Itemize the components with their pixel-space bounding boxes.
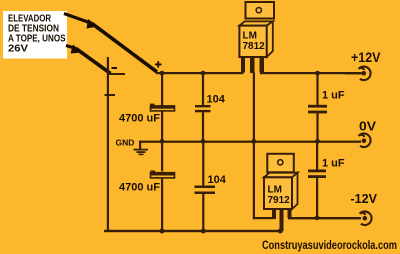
node dot top rail at C2 branch xyxy=(201,71,206,76)
annotation arrow to + input xyxy=(64,14,157,73)
wire: top input rail xyxy=(156,72,244,74)
svg-text:GND: GND xyxy=(116,138,135,148)
capacitor C6 1uF plates xyxy=(308,170,326,179)
svg-text:26V: 26V xyxy=(8,43,28,55)
wire: U1 gnd to U2 gnd pin horizontal xyxy=(253,217,274,219)
GND hook down xyxy=(139,141,141,149)
capacitor C6 lower wire xyxy=(316,178,318,219)
terminal 0V xyxy=(359,133,371,147)
minus label at - input xyxy=(112,67,118,69)
capacitor C2 104 upper wire xyxy=(202,73,204,106)
regulator U2 LM7912 body xyxy=(264,173,298,209)
regulator U1 LM7812 body xyxy=(239,21,272,57)
U2 input pin xyxy=(280,209,284,231)
wire: -12V output line xyxy=(288,217,361,219)
svg-text:7912: 7912 xyxy=(268,195,291,206)
capacitor C4 lower wire xyxy=(161,178,163,231)
capacitor C5 lower wire xyxy=(202,194,204,231)
capacitor C2 lower wire xyxy=(202,112,204,141)
wire: U1 gnd line down xyxy=(253,73,255,220)
node dot gnd rail at C3/C6 branch xyxy=(315,139,320,144)
node dot output rail at C3 branch xyxy=(315,71,320,76)
capacitor C5 104 plates xyxy=(195,186,216,195)
capacitor C1 4700uF upper wire xyxy=(161,73,163,107)
regulator U1 LM7812 tab xyxy=(246,2,275,19)
svg-text:104: 104 xyxy=(208,174,227,186)
node dot -12V line at C6 branch xyxy=(315,215,320,220)
node dot gnd rail at C2/C5 branch xyxy=(201,139,206,144)
ground symbol xyxy=(134,149,149,156)
wire: - input stub xyxy=(107,73,125,75)
regulator U2 LM7912 tab xyxy=(267,154,294,173)
capacitor C3 lower wire xyxy=(316,113,318,140)
wire: GND rail xyxy=(139,141,361,143)
svg-text:LM: LM xyxy=(243,31,257,42)
terminal -12V xyxy=(360,211,372,225)
capacitor C5 104 upper wire xyxy=(202,141,204,186)
node dot top rail at C1 branch xyxy=(160,71,165,76)
capacitor C1 4700uF plates xyxy=(150,104,175,111)
U2 gnd pin xyxy=(272,209,276,219)
capacitor C3 1uF plates xyxy=(308,105,327,114)
node dot gnd rail at 7812 gnd line xyxy=(251,139,256,144)
U1 output pin xyxy=(260,57,265,73)
U1 gnd pin xyxy=(250,57,255,73)
plus label at + input xyxy=(155,61,162,67)
capacitor C1 lower wire xyxy=(161,111,163,141)
capacitor C3 1uF upper wire xyxy=(316,73,318,106)
svg-text:4700 uF: 4700 uF xyxy=(119,113,160,125)
svg-text:-12V: -12V xyxy=(351,191,378,206)
tick crossbar on left wire xyxy=(105,94,116,96)
capacitor C4 4700uF plates xyxy=(151,171,175,178)
U2 output pin xyxy=(288,209,292,218)
capacitor C2 104 plates xyxy=(195,105,211,112)
svg-text:1 uF: 1 uF xyxy=(322,158,345,170)
wire: left vertical (negative input) xyxy=(107,57,109,231)
svg-text:LM: LM xyxy=(268,185,282,196)
wire: bottom negative rail xyxy=(104,230,282,232)
svg-text:0V: 0V xyxy=(359,119,376,134)
svg-text:Construyasuvideorockola.com: Construyasuvideorockola.com xyxy=(262,238,397,252)
svg-text:7812: 7812 xyxy=(243,41,266,52)
node dot bottom rail at C4 branch xyxy=(160,229,165,234)
svg-text:104: 104 xyxy=(207,94,226,106)
U1 input pin xyxy=(241,57,245,73)
wire: top output rail xyxy=(260,72,361,74)
terminal +12V xyxy=(345,67,371,81)
capacitor C6 1uF upper wire xyxy=(316,141,318,170)
svg-text:4700 uF: 4700 uF xyxy=(119,182,160,194)
node dot bottom rail end at 7912 input pin xyxy=(278,229,283,234)
svg-text:+12V: +12V xyxy=(351,50,381,65)
annotation arrow to - input xyxy=(66,45,111,74)
svg-text:1 uF: 1 uF xyxy=(322,90,345,102)
capacitor C4 4700uF upper wire xyxy=(161,141,163,171)
node dot bottom rail at C5 branch xyxy=(201,229,206,234)
node dot gnd rail at C1/C4 branch xyxy=(160,139,165,144)
note box: ELEVADOR DE TENSION A TOPE, UNOS 26V xyxy=(3,11,67,59)
